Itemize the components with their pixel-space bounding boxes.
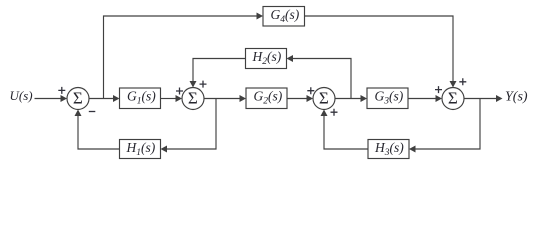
wire H2 takeoff up and left — [293, 59, 352, 99]
arrowhead into S2 left — [176, 95, 183, 102]
arrowhead into S4 top — [450, 81, 457, 88]
arrowhead into G2 — [240, 95, 247, 102]
block G1 — [120, 88, 161, 109]
arrowhead output to Y(s) — [496, 95, 503, 102]
summer S1 — [67, 88, 89, 110]
sign plus at S1 left input — [58, 87, 65, 94]
sign plus at S2 top input — [200, 81, 207, 88]
wire H3 takeoff down and left — [416, 99, 481, 150]
svg-text:Σ: Σ — [448, 88, 458, 107]
wire G1 to S2 — [161, 98, 177, 100]
arrowhead into S3 left — [307, 95, 314, 102]
arrowhead into H2 right side — [287, 55, 294, 62]
arrowhead into G1 — [113, 95, 120, 102]
arrowhead into S3 bottom — [321, 110, 328, 117]
svg-text:U(s): U(s) — [10, 88, 33, 103]
arrowhead into S4 left — [436, 95, 443, 102]
arrowhead into S1 bottom — [75, 110, 82, 117]
wire H3 out to S3 bottom — [324, 116, 368, 150]
block H2 — [246, 49, 287, 69]
arrowhead into H1 right side — [161, 146, 168, 153]
wire takeoff up and across to G4 — [104, 16, 258, 99]
wire G4 to S4 top — [305, 16, 454, 82]
wire G2 to S3 — [287, 98, 308, 100]
arrowhead into G4 — [257, 13, 264, 20]
summer S2 — [182, 88, 204, 110]
sign plus at S4 left input — [435, 86, 442, 93]
svg-text:Y(s): Y(s) — [505, 89, 528, 104]
block G3 — [367, 88, 408, 109]
wire S1 to G1 with takeoff node — [89, 98, 114, 100]
wire H1 out to S1 bottom — [78, 116, 120, 150]
arrowhead into S1 left — [61, 95, 68, 102]
wire S4 to Y(s) output — [464, 98, 497, 100]
arrowhead into H3 right side — [409, 146, 416, 153]
block G4 — [263, 7, 305, 27]
svg-text:Σ: Σ — [73, 88, 83, 107]
arrowhead into S2 top — [190, 81, 197, 88]
wire G3 to S4 — [408, 98, 437, 100]
summer S3 — [313, 88, 335, 110]
sign plus at S3 left input — [307, 87, 314, 94]
svg-text:Σ: Σ — [319, 88, 329, 107]
sign plus at S4 top input — [459, 78, 466, 85]
summer S4 — [442, 88, 464, 110]
wire U(s) to summer S1 — [35, 98, 62, 100]
svg-text:Σ: Σ — [188, 88, 198, 107]
sign minus at S1 bottom input — [89, 111, 96, 113]
sign plus at S3 bottom input — [331, 109, 338, 116]
sign plus at S2 left input — [176, 88, 183, 95]
block G2 — [246, 88, 287, 109]
wire S3 to G3 with H2 takeoff — [335, 98, 362, 100]
block H3 — [368, 140, 409, 159]
wire H2 out to S2 top — [193, 59, 246, 83]
wire S2 to G2 with H1 takeoff — [204, 98, 240, 100]
wire H1 takeoff down and left — [167, 99, 217, 150]
arrowhead into G3 — [361, 95, 368, 102]
block H1 — [120, 140, 161, 159]
